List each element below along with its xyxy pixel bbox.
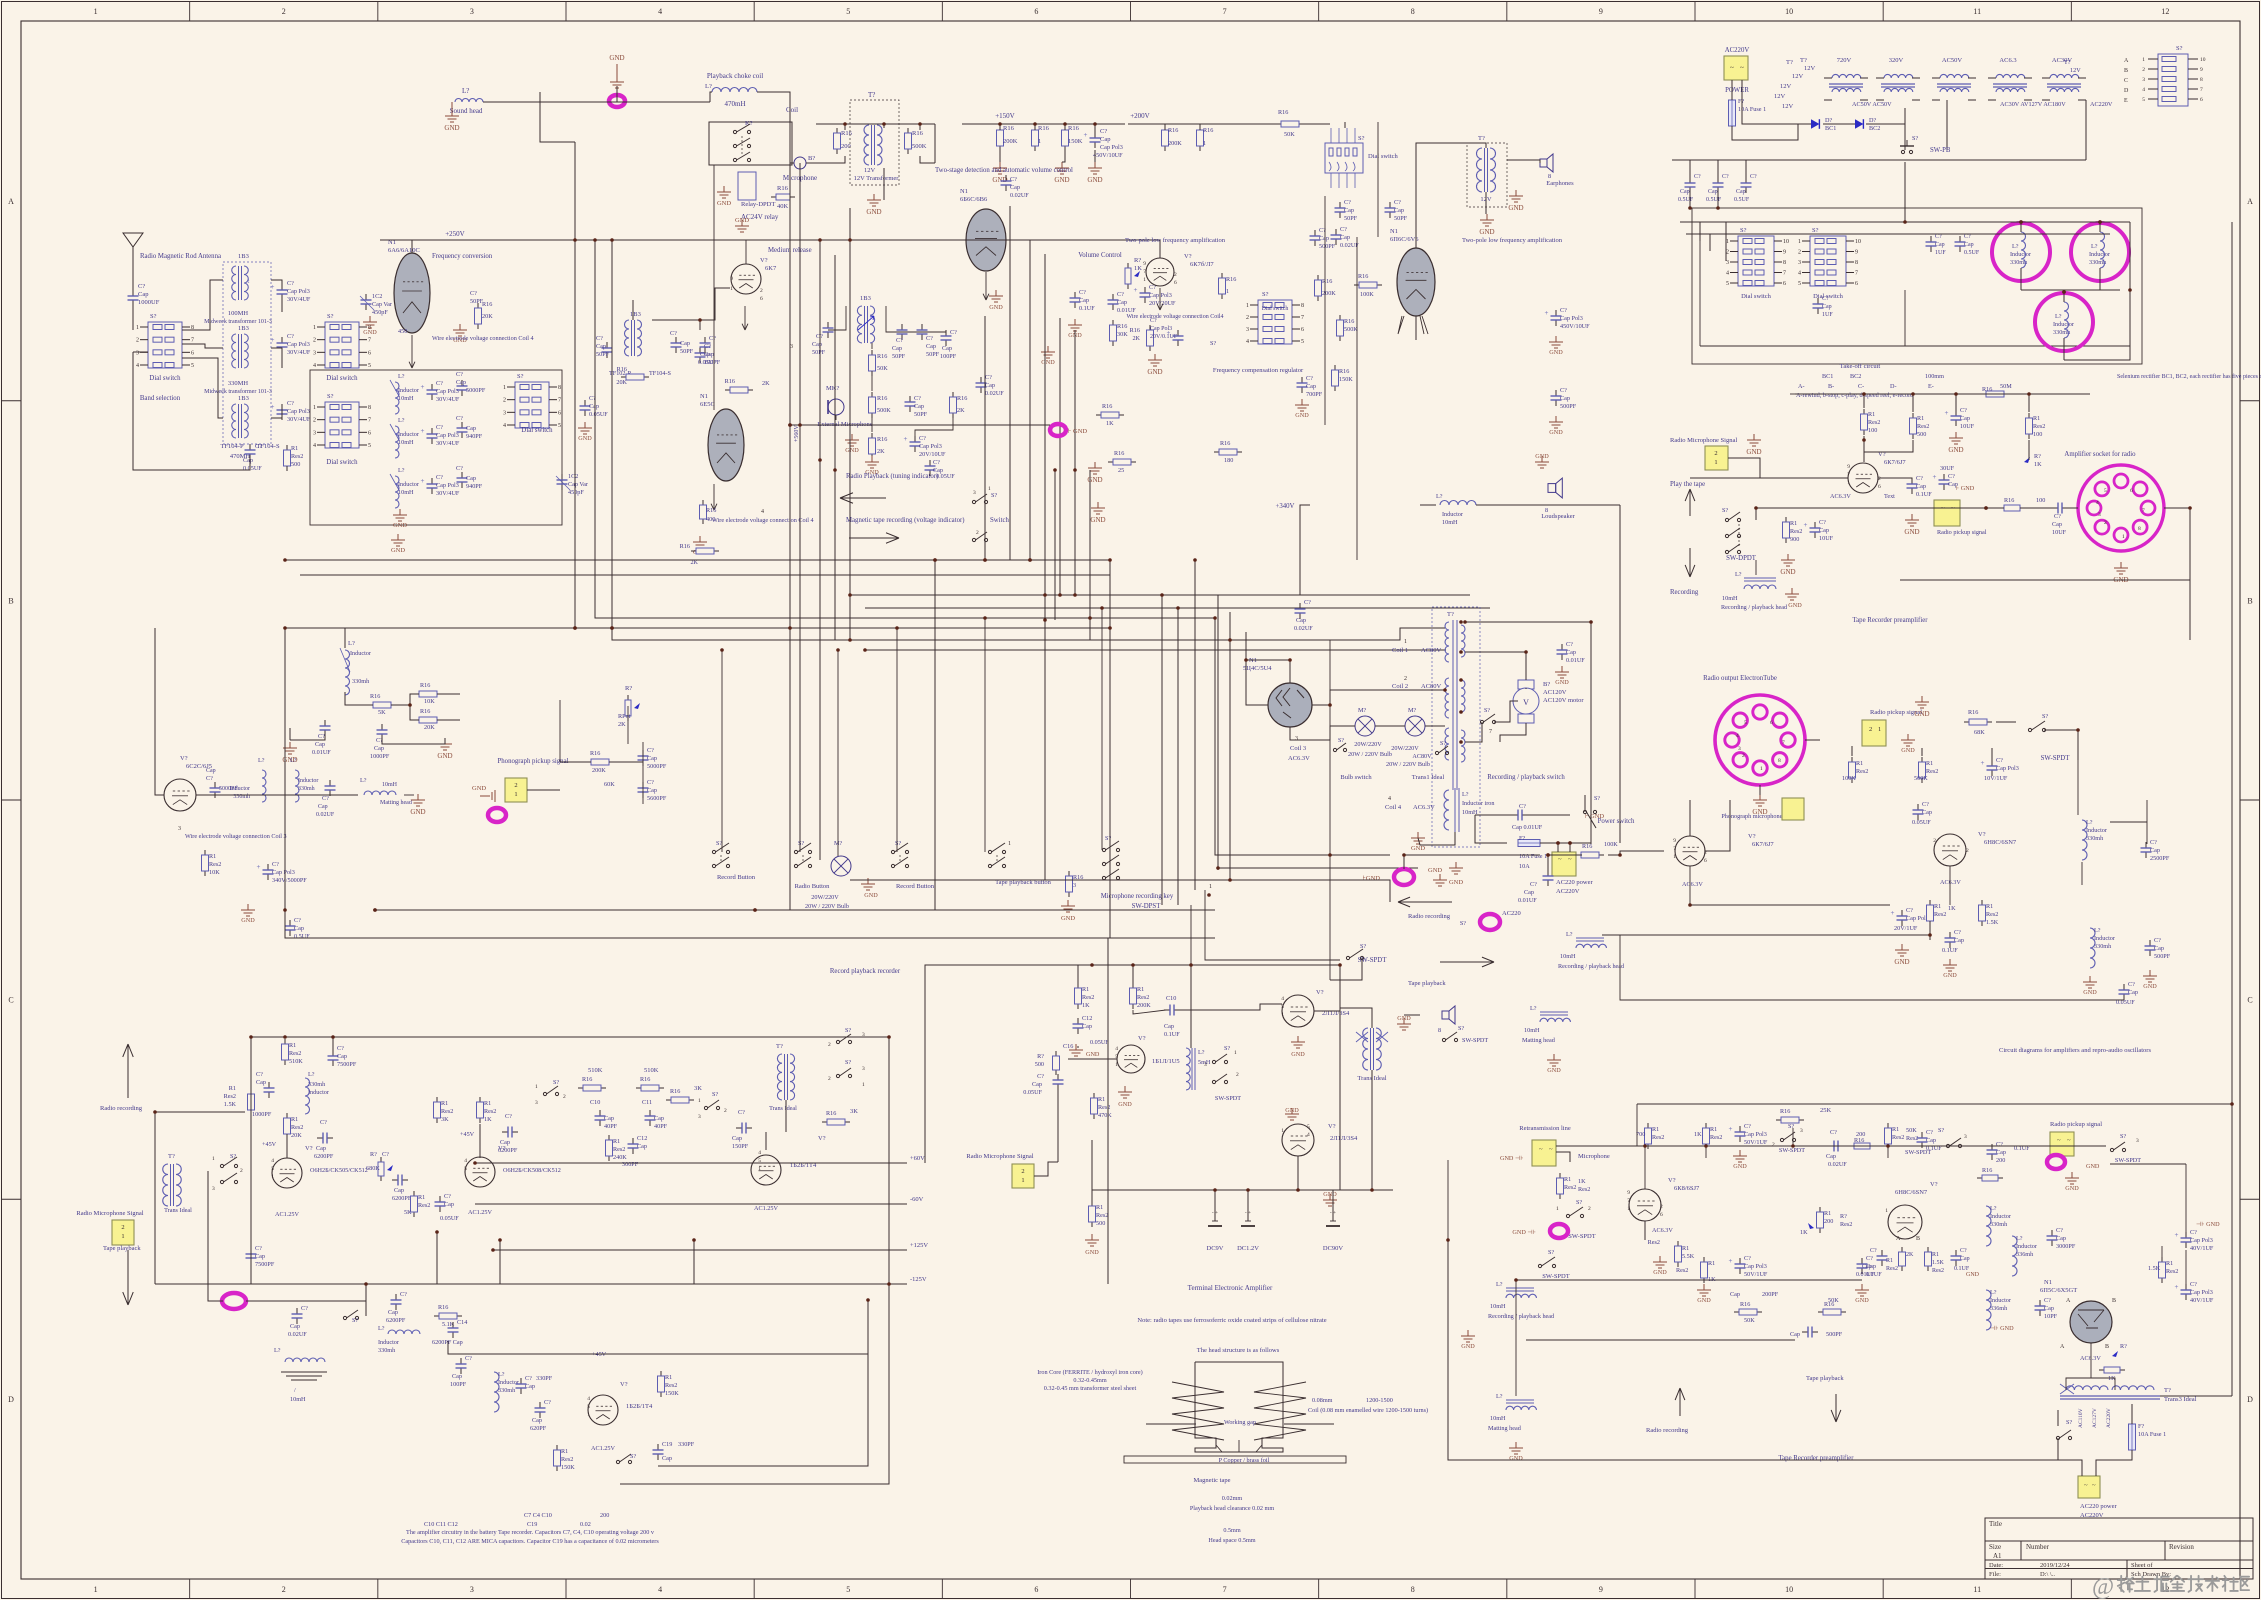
svg-text:1K: 1K — [1694, 1131, 1702, 1138]
svg-text:Cap: Cap — [1708, 189, 1718, 195]
svg-text:C?: C? — [138, 283, 145, 290]
svg-text:File:: File: — [1989, 1571, 2001, 1578]
svg-text:Magnetic tape: Magnetic tape — [1194, 1477, 1231, 1484]
svg-text:1.5K: 1.5K — [2148, 1265, 2161, 1272]
svg-text:Dial switch: Dial switch — [521, 427, 553, 434]
svg-text:7: 7 — [368, 338, 371, 344]
svg-text:Res2: Res2 — [613, 1146, 625, 1153]
svg-text:R1: R1 — [441, 1100, 448, 1107]
capacitor C? Cap 0.03UF mid — [1917, 804, 1919, 810]
svg-text:GND: GND — [1147, 368, 1162, 376]
svg-text:AC6.3V: AC6.3V — [1413, 804, 1435, 811]
svg-text:0.05UF: 0.05UF — [1912, 819, 1931, 826]
svg-text:D: D — [2124, 88, 2129, 94]
svg-text:Cap: Cap — [1319, 235, 1329, 242]
svg-text:Cap: Cap — [2052, 521, 2062, 528]
svg-text:4: 4 — [587, 1396, 590, 1402]
wire sound head bus — [483, 101, 617, 103]
svg-text:0.02UF: 0.02UF — [1340, 242, 1359, 249]
svg-text:R1: R1 — [1564, 1176, 1571, 1183]
svg-text:L?: L? — [1735, 571, 1742, 578]
svg-text:Res2: Res2 — [2166, 1268, 2178, 1275]
svg-text:0.32-0.45 mm transformer steel: 0.32-0.45 mm transformer steel sheet — [1044, 1385, 1137, 1392]
svg-text:GND: GND — [717, 200, 731, 207]
transformer T? 12V dotted — [850, 100, 899, 185]
svg-text:50PF: 50PF — [1394, 215, 1408, 222]
svg-text:S?: S? — [2066, 1419, 2072, 1426]
svg-text:M?: M? — [1408, 707, 1417, 714]
svg-text:100K: 100K — [1360, 291, 1374, 298]
svg-text:R16: R16 — [1114, 450, 1124, 457]
svg-text:Res2: Res2 — [1892, 1134, 1904, 1141]
svg-text:20W/220V: 20W/220V — [811, 894, 839, 901]
svg-text:6П5C/6X5GT: 6П5C/6X5GT — [2040, 1287, 2077, 1294]
svg-text:Phonograph pickup signal: Phonograph pickup signal — [498, 758, 569, 765]
resistor R16 150K rail — [1064, 125, 1066, 130]
svg-text:GND: GND — [866, 208, 881, 216]
svg-text:R1: R1 — [1856, 760, 1863, 767]
resistor R16 mid r — [1221, 273, 1223, 278]
svg-text:AC220V: AC220V — [1556, 888, 1580, 895]
svg-text:500PF: 500PF — [1319, 243, 1336, 250]
svg-text:0.02mm: 0.02mm — [1222, 1495, 1243, 1502]
svg-text:500K: 500K — [912, 143, 927, 150]
svg-text:Radio Magnetic Rod Antenna: Radio Magnetic Rod Antenna — [140, 253, 221, 260]
svg-text:100MH: 100MH — [228, 310, 249, 317]
resistor R16 540K — [907, 128, 909, 133]
svg-text:R1: R1 — [665, 1374, 672, 1381]
svg-text:C?: C? — [1926, 1129, 1933, 1136]
resistor R1 Res2 1K br2 — [1705, 1123, 1707, 1128]
svg-text:S?: S? — [895, 840, 901, 847]
svg-text:Cap Var: Cap Var — [372, 301, 392, 308]
svg-text:Number: Number — [2026, 1543, 2050, 1551]
svg-text:1UF: 1UF — [1935, 250, 1946, 256]
svg-text:450V/10UF: 450V/10UF — [1560, 323, 1590, 330]
svg-text:GND: GND — [241, 917, 255, 924]
head coil zigzag right — [1254, 1382, 1306, 1440]
gnd under transformer — [873, 194, 875, 200]
svg-text:⊦GND: ⊦GND — [1363, 875, 1381, 882]
svg-text:Cap: Cap — [1730, 1291, 1740, 1298]
svg-text:Inductor: Inductor — [2010, 251, 2031, 258]
vertical x985 — [984, 316, 986, 560]
svg-text:100mm: 100mm — [1925, 373, 1944, 380]
resistor R16 100K mid2 — [1576, 854, 1581, 856]
svg-text:20V/1UF: 20V/1UF — [1894, 925, 1918, 932]
svg-text:Two-pole low frequency amplifi: Two-pole low frequency amplification — [1125, 237, 1226, 244]
svg-text:6: 6 — [1878, 484, 1881, 490]
svg-text:50V/1UF: 50V/1UF — [1744, 1271, 1768, 1278]
bottom battery bus -125V — [251, 1283, 907, 1285]
svg-text:Cap: Cap — [1960, 1256, 1970, 1262]
capacitor C12 bl — [632, 1138, 634, 1144]
svg-text:1: 1 — [94, 7, 98, 16]
svg-text:Cap: Cap — [596, 343, 606, 350]
svg-text:+125V: +125V — [910, 1242, 928, 1249]
resistor R1 Res2 150K blc — [556, 1445, 558, 1450]
svg-text:100K: 100K — [1604, 841, 1618, 848]
svg-text:A: A — [8, 197, 14, 206]
gnd eye — [699, 536, 701, 542]
svg-text:0.05UF: 0.05UF — [1023, 1089, 1042, 1096]
svg-text:C?: C? — [647, 747, 654, 754]
svg-text:6Н8C/6SN7: 6Н8C/6SN7 — [1984, 839, 2017, 846]
svg-text:GND: GND — [1449, 879, 1463, 886]
svg-text:10mH: 10mH — [290, 1396, 306, 1403]
capacitor C14 blb — [452, 1322, 454, 1328]
svg-text:0.02UF: 0.02UF — [1294, 625, 1313, 632]
svg-text:+: + — [1729, 1125, 1733, 1133]
svg-text:GND: GND — [1086, 1051, 1100, 1058]
svg-text:1: 1 — [1556, 1206, 1559, 1212]
wires relay top — [816, 123, 935, 125]
svg-text:Cap: Cap — [1826, 1153, 1836, 1160]
svg-text:510K: 510K — [588, 1067, 603, 1074]
svg-text:Cap: Cap — [589, 403, 599, 410]
svg-text:Coil: Coil — [786, 106, 798, 114]
svg-text:B: B — [8, 596, 13, 605]
svg-text:2: 2 — [1404, 676, 1407, 682]
svg-text:200K: 200K — [1168, 140, 1182, 147]
svg-text:30V/4UF: 30V/4UF — [287, 349, 311, 356]
svg-text:1.5K: 1.5K — [1932, 1260, 1945, 1266]
capacitor C? 0.05UF g — [704, 337, 706, 343]
svg-text:R1: R1 — [1917, 415, 1924, 422]
svg-text:C?: C? — [709, 335, 716, 342]
svg-text:V?: V? — [1978, 831, 1986, 838]
svg-text:S?: S? — [845, 1027, 851, 1034]
svg-text:R16: R16 — [1780, 1108, 1790, 1115]
svg-text:6К7/6J7: 6К7/6J7 — [1884, 459, 1906, 466]
svg-text:9: 9 — [1143, 261, 1146, 267]
svg-text:6Б6C/6B6: 6Б6C/6B6 — [960, 196, 988, 203]
svg-text:Circuit diagrams for amplifier: Circuit diagrams for amplifiers and repr… — [1999, 1047, 2151, 1054]
svg-text:10UF: 10UF — [1819, 535, 1834, 542]
svg-text:GND: GND — [1547, 1067, 1561, 1074]
svg-text:1: 1 — [503, 385, 506, 391]
svg-text:Coil 1: Coil 1 — [1392, 647, 1408, 654]
svg-text:R16: R16 — [877, 353, 887, 360]
wires 6c2c — [155, 628, 164, 795]
svg-text:R1: R1 — [2033, 415, 2040, 422]
capacitor C? Cap Pol3 50V/1UF br2 — [1739, 1258, 1741, 1264]
svg-text:SW-SPDT: SW-SPDT — [1215, 1095, 1241, 1102]
svg-text:V?: V? — [1184, 253, 1192, 260]
svg-text:5: 5 — [1744, 720, 1747, 726]
6k7 plate feed — [745, 240, 747, 264]
tape playback arrow br — [1835, 1394, 1837, 1422]
svg-text:C?: C? — [544, 1399, 551, 1406]
svg-text:SW-SPDT: SW-SPDT — [1462, 1037, 1488, 1044]
svg-text:1: 1 — [988, 486, 991, 492]
resistor R1 Res2 1.5K mid — [1981, 900, 1983, 905]
svg-text:8: 8 — [1411, 7, 1415, 16]
svg-text:L?: L? — [1198, 1049, 1205, 1056]
svg-text:2Л1Л/3S4: 2Л1Л/3S4 — [1330, 1135, 1358, 1142]
svg-text:4: 4 — [2096, 500, 2099, 506]
br wires — [2058, 1438, 2082, 1476]
svg-text:9: 9 — [1673, 838, 1676, 844]
svg-text:1: 1 — [1281, 1012, 1284, 1018]
svg-text:Cap: Cap — [1862, 1264, 1872, 1270]
svg-text:GND: GND — [444, 124, 459, 132]
svg-text:1: 1 — [535, 1084, 538, 1090]
svg-text:C?: C? — [337, 1045, 344, 1052]
svg-text:Cap: Cap — [2154, 945, 2164, 952]
svg-text:3K: 3K — [850, 1108, 858, 1115]
svg-text:Inductor: Inductor — [2094, 935, 2115, 942]
svg-text:0.5UF: 0.5UF — [1706, 197, 1722, 203]
svg-text:100: 100 — [2036, 497, 2045, 504]
svg-text:SW-SPDT: SW-SPDT — [2115, 1157, 2141, 1164]
svg-text:0.01UF: 0.01UF — [1117, 307, 1136, 314]
magenta gnd ring a — [1394, 869, 1414, 885]
wires y650 to motor — [865, 649, 1446, 651]
svg-text:7: 7 — [1673, 846, 1676, 852]
svg-text:200: 200 — [841, 143, 851, 150]
resistor R16 500K r6 — [1339, 315, 1341, 320]
svg-text:Cap: Cap — [2150, 847, 2160, 854]
capacitor C? Cap 100PF — [699, 347, 701, 353]
svg-text:GND: GND — [1061, 915, 1075, 922]
svg-text:5: 5 — [2104, 488, 2107, 494]
svg-text:R16: R16 — [1102, 403, 1112, 410]
svg-text:Cap Pol3: Cap Pol3 — [436, 388, 459, 395]
svg-text:+: + — [1084, 131, 1088, 139]
svg-text:1: 1 — [1209, 883, 1212, 890]
svg-text:20V/20UF: 20V/20UF — [1149, 300, 1176, 307]
svg-text:Cap: Cap — [1394, 207, 1404, 214]
svg-text:Cap: Cap — [680, 340, 690, 347]
preamp2 vertical x1793 — [1792, 1128, 1794, 1146]
svg-text:Cap: Cap — [1117, 299, 1127, 306]
capacitor C? 0.02UF br — [1828, 1145, 1834, 1147]
svg-text:R16: R16 — [1226, 276, 1236, 283]
svg-text:2: 2 — [1660, 1204, 1663, 1210]
svg-text:R16: R16 — [957, 395, 967, 402]
svg-text:1: 1 — [121, 1233, 124, 1240]
resistor R16 200K r — [1164, 125, 1166, 130]
gnd ph2 — [417, 794, 419, 800]
svg-text:330mh: 330mh — [352, 678, 370, 685]
svg-text:C?: C? — [2150, 839, 2157, 846]
svg-text:1200-1500: 1200-1500 — [1366, 1397, 1393, 1404]
svg-text:R16: R16 — [1220, 440, 1230, 447]
svg-text:10mH: 10mH — [398, 395, 414, 402]
svg-text:GND: GND — [1746, 448, 1761, 456]
svg-text:10mH: 10mH — [1490, 1415, 1506, 1422]
capacitor C? Cap 50PF tf r — [675, 337, 677, 343]
svg-text:N1: N1 — [960, 188, 968, 195]
svg-text:R16: R16 — [877, 436, 887, 443]
resistor R1 Res2 20K bl — [286, 1113, 288, 1118]
svg-text:500PF: 500PF — [1826, 1331, 1843, 1338]
svg-text:10: 10 — [1785, 7, 1793, 16]
svg-text:GND: GND — [1285, 1107, 1299, 1114]
svg-text:Frequency compensation regulat: Frequency compensation regulator — [1213, 367, 1304, 374]
svg-text:Cap: Cap — [1560, 395, 1570, 402]
svg-text:Res2: Res2 — [665, 1382, 677, 1389]
svg-text:D?: D? — [1825, 117, 1832, 124]
resistor R1 Res2 700 br — [1647, 1123, 1649, 1128]
resistor R1 Res2 1K br — [1559, 1173, 1561, 1178]
capacitor C? Cap Pol3 340V/5000PF — [267, 864, 269, 870]
resistor R16 2K tf — [725, 389, 730, 391]
svg-text:Inductor: Inductor — [398, 481, 419, 488]
svg-text:6К7/6J7: 6К7/6J7 — [1752, 841, 1774, 848]
wires from preamp to right edge — [2189, 508, 2191, 640]
svg-text:T?: T? — [1786, 59, 1793, 66]
svg-text:200K: 200K — [1322, 290, 1336, 297]
capacitor C? Cap 1000PF bl — [268, 1082, 270, 1088]
svg-text:C?: C? — [985, 374, 992, 381]
resistor R16 40K — [771, 196, 776, 198]
svg-text:3: 3 — [2136, 1138, 2139, 1144]
resistor R1 Res2 500 t — [1091, 1201, 1093, 1206]
svg-text:R?: R? — [370, 1151, 377, 1158]
svg-text:+: + — [1729, 1257, 1733, 1265]
svg-text:C?: C? — [294, 917, 301, 924]
svg-text:V?: V? — [1316, 989, 1324, 996]
svg-text:R1: R1 — [291, 445, 298, 452]
svg-text:Radio pickup signal: Radio pickup signal — [1937, 529, 1987, 536]
svg-text:1C2: 1C2 — [568, 473, 578, 480]
resistor R16 400 eye — [702, 500, 704, 505]
svg-text:GND: GND — [1461, 1343, 1475, 1350]
resistor 1K br7 — [2099, 1369, 2104, 1371]
capacitor C? 330PF blc — [520, 1378, 522, 1384]
svg-text:0.02UF: 0.02UF — [288, 1331, 307, 1338]
svg-text:Cap: Cap — [1082, 1023, 1092, 1030]
svg-text:Inductor: Inductor — [1990, 1297, 2011, 1304]
svg-text:6Е5C: 6Е5C — [700, 401, 715, 408]
wires y868 — [1218, 867, 1418, 869]
svg-text:4: 4 — [271, 1158, 274, 1164]
svg-text:R?: R? — [1840, 1213, 1847, 1220]
preamp2 vertical x1888 — [1887, 1146, 1889, 1158]
svg-text:R16: R16 — [670, 1088, 680, 1095]
svg-text:C?: C? — [1344, 199, 1351, 206]
horizontal bus y560 — [285, 559, 1110, 561]
svg-text:Cap Pol3: Cap Pol3 — [1744, 1131, 1767, 1138]
wires ml — [344, 628, 346, 648]
choke coil L? — [712, 88, 757, 93]
svg-text:Radio Microphone Signal: Radio Microphone Signal — [1670, 437, 1737, 444]
svg-text:330mh: 330mh — [2086, 835, 2104, 842]
svg-text:3: 3 — [178, 826, 181, 832]
svg-text:Res2: Res2 — [1932, 1268, 1944, 1274]
svg-text:R16: R16 — [1344, 318, 1354, 325]
resistor R16 510K bl b — [636, 1087, 641, 1089]
yellow tag AC220 br — [2078, 1476, 2100, 1498]
capacitor C? Cap Pol3 30V/4UF osc b — [431, 428, 433, 434]
svg-text:Cap Pol3: Cap Pol3 — [1560, 315, 1583, 322]
gnd tube t — [1124, 1086, 1126, 1092]
svg-text:R16: R16 — [912, 130, 924, 137]
fuse F? 10A Fuse 1 power — [1729, 100, 1736, 126]
svg-text:2: 2 — [1878, 476, 1881, 482]
svg-text:2K: 2K — [877, 448, 885, 455]
svg-text:R16: R16 — [482, 301, 492, 308]
inductor L? mid2 — [2090, 928, 2095, 968]
svg-text:AC220V: AC220V — [1725, 47, 1750, 54]
head core — [1195, 1362, 1283, 1452]
wire choke to relay box — [709, 122, 792, 165]
svg-text:Res2: Res2 — [1917, 423, 1929, 430]
capacitor C? Cap 0.1UF br5 — [1861, 1258, 1863, 1264]
svg-text:500K: 500K — [877, 407, 891, 414]
svg-text:2: 2 — [2142, 67, 2145, 73]
svg-text:1K: 1K — [1948, 905, 1956, 912]
svg-text:GND: GND — [437, 752, 452, 760]
svg-text:S?: S? — [1812, 227, 1819, 234]
bottom right vertical x1448 — [1447, 1160, 1449, 1240]
svg-text:Dial switch: Dial switch — [326, 459, 358, 466]
svg-text:S?: S? — [553, 1079, 559, 1086]
svg-text:5.5K: 5.5K — [1682, 1253, 1695, 1260]
svg-text:S?: S? — [150, 313, 157, 320]
svg-text:C?: C? — [436, 424, 443, 431]
svg-text:7: 7 — [1855, 271, 1858, 277]
svg-text:AC1.25V: AC1.25V — [468, 1209, 492, 1216]
svg-text:2: 2 — [240, 1168, 243, 1174]
preamp2 vertical tube1 — [1644, 1146, 1646, 1189]
svg-text:0.05UF: 0.05UF — [589, 411, 608, 418]
magenta ring br — [2047, 1155, 2065, 1169]
svg-text:Tape Recorder preamplifier: Tape Recorder preamplifier — [1852, 617, 1928, 624]
radio recording arrow br — [1679, 1388, 1681, 1416]
svg-text:L?: L? — [1530, 1005, 1537, 1012]
svg-text:Cap: Cap — [654, 1115, 664, 1122]
capacitor C? Cap 6200PF bl — [317, 1137, 323, 1139]
svg-text:R1: R1 — [229, 1085, 236, 1092]
power block wires — [1672, 159, 2086, 161]
wire 2232 to trans3 — [2160, 1395, 2232, 1397]
capacitor C11 bl — [649, 1110, 651, 1116]
svg-text:0.05UF: 0.05UF — [1090, 1039, 1109, 1046]
svg-text:1: 1 — [1673, 854, 1676, 860]
svg-text:C?: C? — [933, 459, 940, 466]
vertical x1030 — [1029, 240, 1031, 560]
svg-text:500: 500 — [1035, 1061, 1044, 1068]
right long vertical x2232 — [2231, 222, 2233, 1396]
capacitor C? Cap Pol3 30V/4UF a — [281, 284, 283, 290]
svg-text:R1: R1 — [1137, 986, 1144, 993]
svg-text:10UF: 10UF — [2052, 529, 2067, 536]
svg-text:6К8/6SJ7: 6К8/6SJ7 — [1674, 1185, 1700, 1192]
svg-text:C?: C? — [1744, 1255, 1751, 1262]
svg-text:N1: N1 — [1390, 228, 1398, 235]
svg-text:5: 5 — [2142, 97, 2145, 103]
svg-text:20K: 20K — [291, 1132, 302, 1139]
svg-text:The amplifier circuitry in the: The amplifier circuitry in the battery T… — [406, 1529, 655, 1536]
resistor R1 Res2 510K bl — [284, 1039, 286, 1044]
svg-text:Inductor: Inductor — [308, 1089, 329, 1096]
svg-text:4: 4 — [658, 1585, 662, 1594]
gnd 6b6 — [995, 290, 997, 296]
svg-text:R16: R16 — [1117, 323, 1127, 330]
svg-text:200: 200 — [600, 1512, 609, 1519]
svg-text:2019/12/24: 2019/12/24 — [2040, 1562, 2070, 1569]
svg-text:S?: S? — [1262, 291, 1269, 298]
svg-text:200K: 200K — [1003, 138, 1018, 145]
svg-text:R1: R1 — [1682, 1245, 1689, 1252]
svg-text:3: 3 — [2142, 77, 2145, 83]
svg-text:7: 7 — [368, 418, 371, 424]
svg-text:1: 1 — [1008, 840, 1011, 847]
svg-text:C?: C? — [318, 733, 325, 740]
